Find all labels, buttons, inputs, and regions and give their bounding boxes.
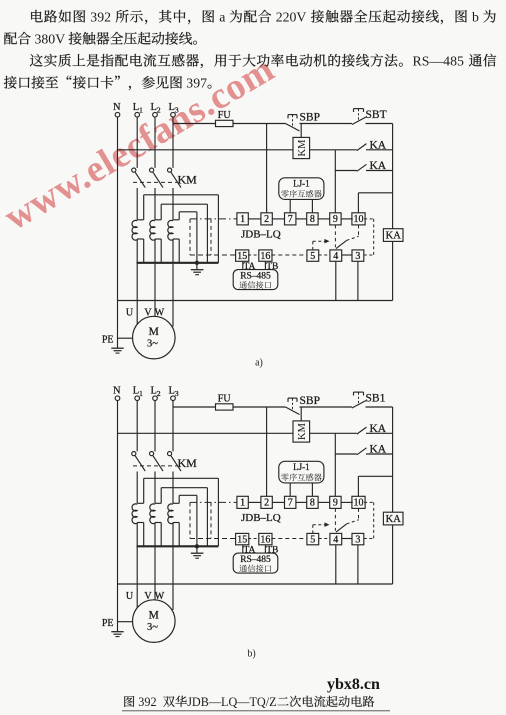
wire KA1 to right rail (b) [366, 432, 393, 434]
svg-text:RS–485: RS–485 [240, 555, 271, 565]
terminal box 5 (a) [307, 250, 319, 262]
relay contact KA2 (a) [335, 160, 387, 172]
svg-text:KA: KA [386, 514, 402, 525]
svg-text:FU: FU [218, 110, 232, 121]
svg-text:1: 1 [240, 498, 245, 509]
svg-text:3: 3 [355, 251, 360, 262]
terminal box 16 (a) [259, 250, 272, 262]
svg-text:KM: KM [178, 456, 198, 470]
wire 3 drop (a) [357, 261, 359, 300]
wire dashed 5-4 (a) [319, 254, 330, 256]
terminal box 10 (b) [352, 496, 365, 508]
paragraph line 2 [4, 32, 197, 47]
label U V W (a) [126, 307, 165, 318]
paragraph line 4 [4, 76, 212, 91]
svg-text:M: M [149, 326, 159, 338]
current transformer TA2 (a) [150, 204, 208, 316]
svg-text:PE: PE [102, 334, 114, 345]
wire L3 feeder (b) [172, 401, 174, 452]
wire dashed 15-16 (a) [248, 254, 259, 256]
wire KA2 to right rail (b) [366, 453, 393, 455]
wire dashed 16-5 (b) [271, 538, 307, 540]
motor M (a) [133, 316, 176, 359]
svg-text:W: W [155, 591, 165, 602]
svg-text:7: 7 [288, 498, 293, 509]
contactor KM main contacts (b) [132, 452, 197, 504]
svg-text:a): a) [255, 358, 263, 369]
terminal L2 (a) [151, 102, 161, 117]
wire PE link (b) [118, 621, 133, 623]
wire dashdot to terminal 1 (b) [190, 501, 237, 503]
wire right rail lower (a) [392, 241, 394, 300]
wire terminal 2 stub (b) [266, 407, 268, 496]
svg-text:JDB–LQ: JDB–LQ [241, 229, 281, 241]
pushbutton SBT (a) [352, 109, 387, 125]
wire L3 to FU (b) [173, 406, 216, 408]
terminal L3 (b) [169, 386, 179, 401]
svg-text:U: U [126, 591, 134, 602]
wire LJ-1 stubs (b) [290, 483, 312, 496]
svg-text:5: 5 [310, 251, 315, 262]
pushbutton SBP (b) [286, 395, 320, 414]
svg-text:SB1: SB1 [366, 393, 386, 405]
wire terminal 2 stub (a) [266, 124, 268, 213]
terminal box 5 (b) [307, 533, 319, 545]
svg-text:15: 15 [237, 251, 247, 262]
wire terminal links top (a) [248, 218, 352, 220]
fuse FU (b) [216, 394, 234, 410]
wire KM coil stub (b) [300, 407, 302, 421]
label JDB-LQ (a) [241, 229, 281, 241]
wire N feeder (b) [117, 401, 119, 632]
wire 4 drop (a) [335, 261, 337, 300]
svg-text:9: 9 [333, 214, 338, 225]
current transformer TA2 (b) [150, 488, 208, 600]
communication interface RS-485 (b) [233, 553, 278, 573]
wire L1 feeder (a) [136, 117, 138, 168]
terminal box 10 (a) [352, 213, 365, 225]
svg-text:8: 8 [310, 498, 315, 509]
wire bottom rail (b) [118, 583, 393, 585]
svg-text:SBT: SBT [366, 109, 387, 121]
contactor coil KM (a) [293, 137, 310, 158]
caption [124, 695, 374, 709]
svg-text:LJ-1: LJ-1 [293, 179, 310, 189]
wire 4 drop (b) [335, 545, 337, 584]
svg-text:JDB–LQ: JDB–LQ [241, 512, 281, 524]
relay contact 9-4 dashed (a) [335, 225, 358, 249]
svg-text:TB: TB [266, 545, 278, 555]
paragraph line 3 [30, 54, 496, 69]
svg-text:TA: TA [244, 545, 256, 555]
wire right rail upper (a) [392, 124, 394, 229]
svg-text:KM: KM [297, 422, 308, 440]
terminal box 4 (a) [330, 250, 342, 262]
wire SBP to SBT (b) [300, 406, 353, 408]
contactor coil KM (b) [293, 421, 310, 442]
wire right rail lower (b) [392, 525, 394, 584]
svg-text:M: M [149, 609, 159, 621]
svg-text:8: 8 [310, 214, 315, 225]
terminal box 1 (a) [237, 213, 248, 225]
wire L3 feeder (a) [172, 117, 174, 168]
terminal L1 (a) [133, 102, 143, 117]
wire N rail (a) [118, 149, 294, 151]
svg-text:KM: KM [297, 139, 308, 157]
terminal box 9 (a) [330, 213, 341, 225]
relay contact KA1 (b) [335, 423, 387, 435]
svg-text:4: 4 [333, 251, 338, 262]
svg-text:392: 392 [138, 695, 156, 709]
terminal box 3 (a) [352, 250, 364, 262]
wire SB1 to right rail (b) [366, 406, 393, 408]
terminal box 16 (b) [259, 533, 272, 545]
svg-text:KM: KM [178, 173, 198, 187]
terminal box 3 (b) [352, 533, 364, 545]
svg-text:b): b) [247, 649, 255, 660]
svg-text:TB: TB [266, 262, 278, 272]
terminal L3 (a) [169, 102, 179, 117]
svg-text:10: 10 [354, 498, 364, 509]
terminal box 2 (b) [261, 496, 272, 508]
current transformer TA1 (b) [132, 478, 218, 608]
terminal L1 (b) [133, 386, 143, 401]
terminal box 4 (b) [330, 533, 342, 545]
svg-text:JDB—LQ—TQ/Z: JDB—LQ—TQ/Z [187, 695, 276, 709]
caption underline [122, 710, 390, 712]
terminal box 15 (a) [236, 250, 249, 262]
wire SBP to SBT (a) [300, 123, 353, 125]
fuse FU (a) [216, 110, 234, 126]
dashed frame CT secondary (b) [190, 502, 211, 538]
current transformer TA1 (a) [132, 195, 218, 325]
svg-text:15: 15 [237, 534, 247, 545]
svg-text:380V: 380V [35, 32, 66, 47]
relay contact 9-4 dashed (b) [335, 508, 358, 532]
svg-text:a: a [219, 10, 225, 25]
current transformer TA3 (a) [168, 212, 197, 327]
terminal box 1 (b) [237, 496, 248, 508]
ground PE (b) [102, 618, 124, 637]
svg-text:10: 10 [354, 214, 364, 225]
svg-text:ybx8.cn: ybx8.cn [327, 676, 380, 693]
terminal box 15 (b) [236, 533, 249, 545]
wire N feeder (a) [117, 117, 119, 348]
contactor KM main contacts (a) [132, 168, 197, 220]
wire N rail (b) [118, 432, 294, 434]
wire dashdot to terminal 1 (a) [190, 218, 237, 220]
svg-text:2: 2 [264, 498, 269, 509]
svg-text:16: 16 [260, 251, 270, 262]
svg-text:3~: 3~ [147, 622, 158, 633]
wire right rail upper (b) [392, 407, 394, 512]
ground CT (a) [191, 263, 204, 275]
communication interface RS-485 (a) [233, 270, 278, 290]
terminal L2 (b) [151, 386, 161, 401]
wire CT common thick (a) [137, 261, 219, 264]
svg-text:SBP: SBP [300, 112, 320, 124]
wire L1 feeder (b) [136, 401, 138, 452]
current transformer TA3 (b) [168, 495, 197, 610]
wire dashed 5-4 (b) [319, 538, 330, 540]
pushbutton SB1 (b) [352, 392, 386, 408]
wire dashed 3 right (a) [364, 219, 374, 255]
svg-text:7: 7 [288, 214, 293, 225]
wire KA branch vertical (a) [334, 150, 336, 213]
wire L3 to FU (a) [173, 123, 216, 125]
svg-text:N: N [113, 102, 121, 113]
relay coil KA (b) [383, 512, 403, 525]
svg-text:PE: PE [102, 618, 114, 629]
svg-text:397: 397 [186, 76, 207, 91]
wire KM to KA1 (b) [310, 432, 336, 434]
wire 3 drop (b) [357, 545, 359, 584]
svg-text:2: 2 [264, 214, 269, 225]
svg-text:LJ-1: LJ-1 [293, 462, 310, 472]
wire dashed 3 right (b) [364, 502, 374, 538]
wire dashed 16-5 (a) [271, 254, 307, 256]
wire link 10 to right rail (b) [358, 476, 392, 496]
svg-text:KA: KA [386, 230, 402, 241]
relay coil KA (a) [383, 229, 403, 242]
svg-text:RS—485: RS—485 [413, 54, 464, 69]
label U V W (b) [126, 591, 165, 602]
terminal box 8 (b) [307, 496, 318, 508]
wire CT common thick (b) [137, 545, 219, 548]
svg-text:www.elecfans.com: www.elecfans.com [0, 48, 281, 239]
svg-text:V: V [144, 307, 152, 318]
pushbutton SBP (a) [286, 112, 320, 131]
svg-text:U: U [126, 307, 134, 318]
terminal box 7 (b) [285, 496, 296, 508]
svg-text:5: 5 [310, 534, 315, 545]
terminal N (b) [113, 386, 121, 401]
terminal box 7 (a) [285, 213, 296, 225]
wire FU to SBP (b) [233, 406, 286, 408]
svg-text:3: 3 [355, 534, 360, 545]
svg-text:SBP: SBP [300, 395, 320, 407]
svg-text:N: N [113, 386, 121, 397]
svg-text:1: 1 [240, 214, 245, 225]
zero-sequence transformer LJ-1 (b) [279, 461, 324, 483]
wire KA1 to right rail (a) [366, 149, 393, 151]
wire bottom rail (a) [118, 300, 393, 302]
wire terminal links top (b) [248, 501, 352, 503]
svg-text:V: V [144, 591, 152, 602]
svg-text:W: W [155, 307, 165, 318]
svg-text:RS–485: RS–485 [240, 272, 271, 282]
svg-text:FU: FU [218, 394, 232, 405]
wire link 10 to right rail (a) [358, 193, 392, 213]
terminal box 9 (b) [330, 496, 341, 508]
label TA TB (b) [243, 545, 279, 556]
paragraph line 1 [31, 10, 496, 25]
svg-text:4: 4 [333, 534, 338, 545]
wire L2 feeder (b) [154, 401, 156, 452]
svg-text:392: 392 [90, 10, 111, 25]
arrow contact 5 (a) [313, 239, 330, 250]
wire dashed to terminal 15 (a) [190, 254, 236, 256]
motor M (b) [133, 600, 176, 643]
terminal box 2 (a) [261, 213, 272, 225]
wire 4-3 (b) [342, 538, 352, 540]
wire LJ-1 stubs (a) [290, 199, 312, 212]
relay contact KA2 (b) [335, 444, 387, 456]
svg-text:220V: 220V [276, 10, 307, 25]
wire FU to SBP (a) [233, 123, 286, 125]
circuit (a) [0, 0, 1, 1]
svg-text:TA: TA [244, 262, 256, 272]
wire KM coil stub (a) [300, 124, 302, 138]
arrow contact 5 (b) [313, 522, 330, 533]
wire dashed to terminal 15 (b) [190, 538, 236, 540]
wire KM to KA1 (a) [310, 149, 336, 151]
wire dashed 15-16 (b) [248, 538, 259, 540]
wire SBT to right rail (a) [366, 123, 393, 125]
svg-text:b: b [472, 10, 479, 25]
label JDB-LQ (b) [241, 512, 281, 524]
wire KA branch vertical (b) [334, 433, 336, 496]
zero-sequence transformer LJ-1 (a) [279, 178, 324, 200]
svg-text:9: 9 [333, 498, 338, 509]
ground PE (a) [102, 334, 124, 353]
relay contact KA1 (a) [335, 140, 387, 152]
dashed frame CT secondary (a) [190, 219, 211, 255]
wire 4-3 (a) [342, 254, 352, 256]
terminal N (a) [113, 102, 121, 117]
wire PE link (a) [118, 337, 133, 339]
label TA TB (a) [243, 261, 279, 272]
circuit (b) [0, 0, 1, 1]
wire KA2 to right rail (a) [366, 170, 393, 172]
terminal box 8 (a) [307, 213, 318, 225]
svg-text:3~: 3~ [147, 339, 158, 350]
ground CT (b) [191, 546, 204, 558]
svg-text:16: 16 [260, 534, 270, 545]
wire L2 feeder (a) [154, 117, 156, 168]
